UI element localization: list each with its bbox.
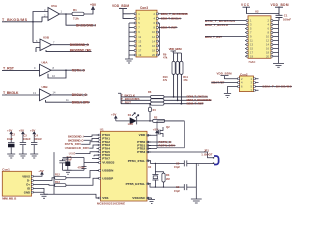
resistor R1	[72, 8, 84, 20]
svg-text:U6B: U6B	[42, 85, 49, 89]
wire VSSOSC	[147, 198, 152, 199]
power VDD_BDM (pull-ups)	[169, 47, 183, 62]
svg-text:C4: C4	[35, 134, 39, 138]
wire U5B inputs	[33, 43, 40, 53]
svg-text:BKGLK_O: BKGLK_O	[72, 93, 88, 97]
svg-text:USBDP: USBDP	[102, 176, 113, 180]
node T_BKGD/MS	[2, 18, 28, 22]
svg-text:U5B: U5B	[43, 35, 50, 39]
svg-text:R3: R3	[166, 173, 170, 177]
svg-text:47k: 47k	[163, 78, 168, 82]
svg-text:C9: C9	[176, 185, 180, 189]
power +5V (R1)	[84, 3, 97, 14]
power VDD_BDM (U2)	[271, 3, 289, 15]
svg-text:7,5k: 7,5k	[73, 16, 79, 20]
svg-text:1_BOOT: 1_BOOT	[201, 152, 212, 156]
ground (Con2)	[224, 87, 238, 98]
svg-text:47k: 47k	[163, 56, 168, 60]
capacitor C8	[174, 160, 196, 169]
svg-text:10: 10	[152, 30, 155, 34]
wire stack bus	[53, 152, 55, 194]
svg-text:Con3: Con3	[140, 6, 148, 10]
node BDM_T_RST (Con2)	[211, 80, 237, 84]
wire GND rail to VSS	[44, 194, 101, 198]
capacitor C12	[78, 163, 87, 171]
svg-text:VSS: VSS	[102, 196, 108, 200]
svg-text:BDM_T_BKGD/MS: BDM_T_BKGD/MS	[263, 85, 292, 89]
resistor R11	[180, 61, 189, 81]
svg-text:12: 12	[152, 35, 155, 39]
power +5V (VDD)	[147, 128, 158, 136]
wire T_BKGD/MS input	[2, 12, 48, 43]
connector Con1 USB	[2, 168, 36, 201]
ground (USB)	[40, 194, 48, 198]
node BDM_T_BKCLK (U2 pin3)	[205, 23, 244, 27]
resistor R4 (vertical small)	[149, 103, 157, 122]
wire D+ to R13	[37, 184, 55, 187]
svg-text:13: 13	[138, 39, 141, 43]
capacitor C4 100nF	[31, 134, 42, 154]
ground (osc)	[191, 199, 202, 203]
svg-text:VUSB33: VUSB33	[102, 161, 114, 165]
svg-text:X2: X2	[148, 165, 152, 169]
svg-text:U5A: U5A	[51, 4, 58, 8]
svg-text:BDM_T_BKCLK: BDM_T_BKCLK	[161, 17, 182, 21]
svg-text:14: 14	[152, 39, 155, 43]
MCU U1	[97, 113, 219, 206]
svg-text:MINI_MB_B: MINI_MB_B	[2, 197, 16, 201]
wire PTB0 RSTN_O	[147, 141, 172, 143]
svg-text:RSTN_DRV: RSTN_DRV	[159, 144, 176, 148]
wire T_BKGLK input	[2, 91, 40, 95]
node USBDM label stack	[65, 134, 99, 158]
svg-text:BKGD/SND_DRV: BKGD/SND_DRV	[70, 48, 92, 52]
ground (C4)	[30, 154, 38, 158]
svg-text:GND: GND	[24, 190, 30, 194]
wire PTB2	[147, 148, 157, 150]
svg-text:R6: R6	[148, 90, 152, 94]
wire PTB3 to JP1	[147, 152, 214, 158]
wire U1 pin stubs	[97, 135, 152, 198]
jumper JP1	[196, 149, 218, 165]
svg-text:VDD: VDD	[139, 133, 146, 137]
power +5V (C2)	[7, 128, 12, 142]
svg-text:T_BKGD/MS: T_BKGD/MS	[2, 18, 28, 22]
svg-text:BKGD/SND_I: BKGD/SND_I	[76, 24, 96, 28]
wire U1 pin pads	[99, 134, 149, 199]
svg-text:VDD_BDM: VDD_BDM	[169, 47, 183, 51]
wire T_RST input	[2, 66, 40, 70]
power VCC (U2)	[241, 3, 279, 14]
wire row1	[121, 96, 208, 98]
resistor R9	[163, 53, 175, 75]
svg-text:16: 16	[266, 47, 269, 51]
svg-text:100nF: 100nF	[34, 137, 42, 141]
wire R12 to USBDN	[66, 171, 101, 178]
svg-text:10: 10	[266, 35, 269, 39]
svg-text:U6A: U6A	[42, 60, 49, 64]
wire PTB1 RSTN_DRV	[147, 145, 176, 147]
svg-text:RSTN_O: RSTN_O	[72, 68, 86, 72]
power VDD_BDM (Con2)	[217, 71, 238, 78]
wire EXTAL rail	[147, 184, 184, 188]
svg-text:15: 15	[250, 47, 253, 51]
svg-text:100nF: 100nF	[23, 137, 31, 141]
svg-text:19: 19	[250, 54, 253, 58]
svg-text:R12: R12	[55, 172, 60, 176]
wire U6A output + feedback	[48, 69, 85, 78]
ground (Con3 left)	[125, 55, 133, 63]
svg-text:15pF: 15pF	[174, 189, 180, 193]
svg-text:47k: 47k	[183, 78, 188, 82]
svg-text:VCC: VCC	[241, 3, 250, 7]
capacitor C3 100nF	[20, 134, 31, 154]
capacitor C1	[276, 13, 292, 21]
resistor R2	[153, 115, 165, 122]
svg-text:74AC: 74AC	[248, 60, 255, 64]
svg-text:VDD_BDM: VDD_BDM	[112, 4, 129, 8]
resistor R13	[55, 180, 67, 187]
op-amp U5A	[44, 4, 63, 21]
power VDD_BDM (Con3)	[112, 4, 131, 18]
capacitor C10	[65, 155, 72, 171]
svg-text:15pF: 15pF	[174, 165, 180, 169]
svg-text:18: 18	[266, 51, 269, 55]
power +5V (D1)	[111, 113, 117, 121]
capacitor C9	[174, 184, 196, 193]
IC U2	[244, 10, 279, 65]
svg-text:VDD_BDM: VDD_BDM	[217, 71, 233, 75]
svg-text:+5V: +5V	[38, 169, 43, 173]
svg-text:18: 18	[152, 49, 155, 53]
resistor R3	[155, 172, 169, 187]
svg-text:+5V: +5V	[90, 3, 97, 7]
capacitor C2 10uF	[7, 133, 16, 154]
ground (VSSOSC)	[148, 199, 155, 203]
resistor R10	[163, 61, 179, 81]
connector Con2	[240, 72, 293, 92]
svg-text:U5E: U5E	[69, 153, 76, 156]
svg-text:100nF: 100nF	[283, 17, 291, 21]
wire R13 to USBDP	[66, 178, 101, 185]
svg-text:VDD_BDM: VDD_BDM	[271, 3, 289, 7]
power +5V (C4)	[30, 128, 35, 142]
wire row2	[121, 99, 212, 101]
svg-text:USBDN: USBDN	[102, 169, 114, 173]
svg-text:C8: C8	[176, 162, 180, 166]
wire to BKGD/SND_I	[66, 14, 96, 25]
svg-text:2M: 2M	[166, 177, 170, 181]
wire Con2 pin pads	[238, 78, 256, 91]
svg-text:PTB3: PTB3	[137, 150, 145, 154]
resistor R12	[55, 172, 67, 179]
svg-text:20: 20	[266, 54, 269, 58]
wire PTA6/PTA7 stubs	[92, 155, 99, 158]
wire osc ground bus	[196, 163, 199, 199]
op-amp U6B	[40, 85, 56, 101]
svg-text:16: 16	[152, 44, 155, 48]
op-amp U6A	[40, 60, 55, 76]
svg-text:LED: LED	[128, 122, 133, 126]
wire U6B output	[51, 94, 88, 96]
svg-text:BDM_T_BKGD/SND: BDM_T_BKGD/SND	[161, 12, 189, 16]
wire rows left bracket	[118, 93, 121, 103]
svg-text:14: 14	[266, 43, 269, 47]
svg-text:PTB4_XTAL: PTB4_XTAL	[128, 159, 146, 163]
node BDM_T_BKGD/MS (U2 pin1)	[205, 19, 244, 23]
svg-text:R13: R13	[55, 180, 60, 184]
svg-text:13: 13	[250, 43, 253, 47]
wire VUSB33	[63, 157, 99, 163]
wire U5B output	[52, 44, 90, 46]
resistor R8	[151, 102, 165, 105]
wire Con3 pin pads	[134, 13, 158, 56]
svg-text:MC9S08JS16CDWE: MC9S08JS16CDWE	[97, 201, 125, 205]
power +5V (VBUS)	[37, 169, 44, 176]
svg-text:17: 17	[250, 51, 253, 55]
wire D- to R12	[37, 178, 55, 181]
svg-text:19: 19	[138, 53, 141, 57]
wire XTAL rail	[147, 161, 184, 164]
wire R2 to box	[165, 120, 185, 122]
svg-text:R2: R2	[154, 115, 158, 119]
wire U5B drive	[46, 50, 92, 52]
svg-text:BKGD/SND_O: BKGD/SND_O	[70, 43, 90, 47]
resistor R6	[148, 90, 164, 99]
svg-text:BKGLK_DRV: BKGLK_DRV	[72, 100, 90, 104]
svg-text:USB/BKGD_DRV: USB/BKGD_DRV	[65, 146, 89, 150]
LED D1	[116, 113, 153, 126]
node BDM_T_RST (U2 pin9)	[205, 35, 244, 39]
ground (U2 right bus)	[273, 63, 284, 67]
crystal X2	[148, 163, 158, 187]
svg-text:D1: D1	[128, 113, 132, 117]
wire U2 pin pads	[246, 20, 273, 57]
wire U6B drive	[46, 98, 91, 102]
svg-text:VSSOSC: VSSOSC	[132, 196, 146, 200]
svg-text:C2: C2	[12, 133, 16, 137]
ground (C3)	[19, 154, 27, 158]
svg-text:11: 11	[138, 35, 141, 39]
svg-text:C3: C3	[23, 134, 27, 138]
power +5V (C3)	[19, 128, 24, 142]
svg-text:Q2: Q2	[166, 125, 170, 129]
wire pull-up drops	[173, 74, 183, 104]
transistor Q2 box	[157, 121, 184, 148]
svg-text:20: 20	[152, 53, 155, 57]
svg-text:R1: R1	[73, 8, 77, 12]
svg-text:+5V: +5V	[153, 128, 158, 132]
svg-text:U2: U2	[255, 10, 259, 14]
connector Con3	[129, 6, 188, 57]
ground (VUSB caps)	[63, 170, 85, 174]
wire row3	[121, 103, 204, 105]
wire U5A output	[60, 13, 73, 15]
op-amp U5B	[36, 35, 55, 50]
svg-text:12: 12	[266, 39, 269, 43]
svg-text:PTB5_EXTAL: PTB5_EXTAL	[126, 182, 146, 186]
svg-text:17: 17	[138, 49, 141, 53]
svg-text:BDM_T_RST: BDM_T_RST	[161, 26, 177, 30]
capacitor C11	[59, 159, 65, 170]
svg-text:BDM_T_RST: BDM_T_RST	[187, 102, 204, 106]
resistor R7	[151, 99, 165, 102]
wire Con1 pin pads	[31, 175, 33, 193]
svg-text:15: 15	[138, 44, 141, 48]
ground (C2)	[7, 154, 15, 158]
svg-text:10uF: 10uF	[7, 137, 14, 141]
svg-text:10uF: 10uF	[66, 158, 72, 162]
wire ID/GND to ground	[37, 188, 45, 194]
